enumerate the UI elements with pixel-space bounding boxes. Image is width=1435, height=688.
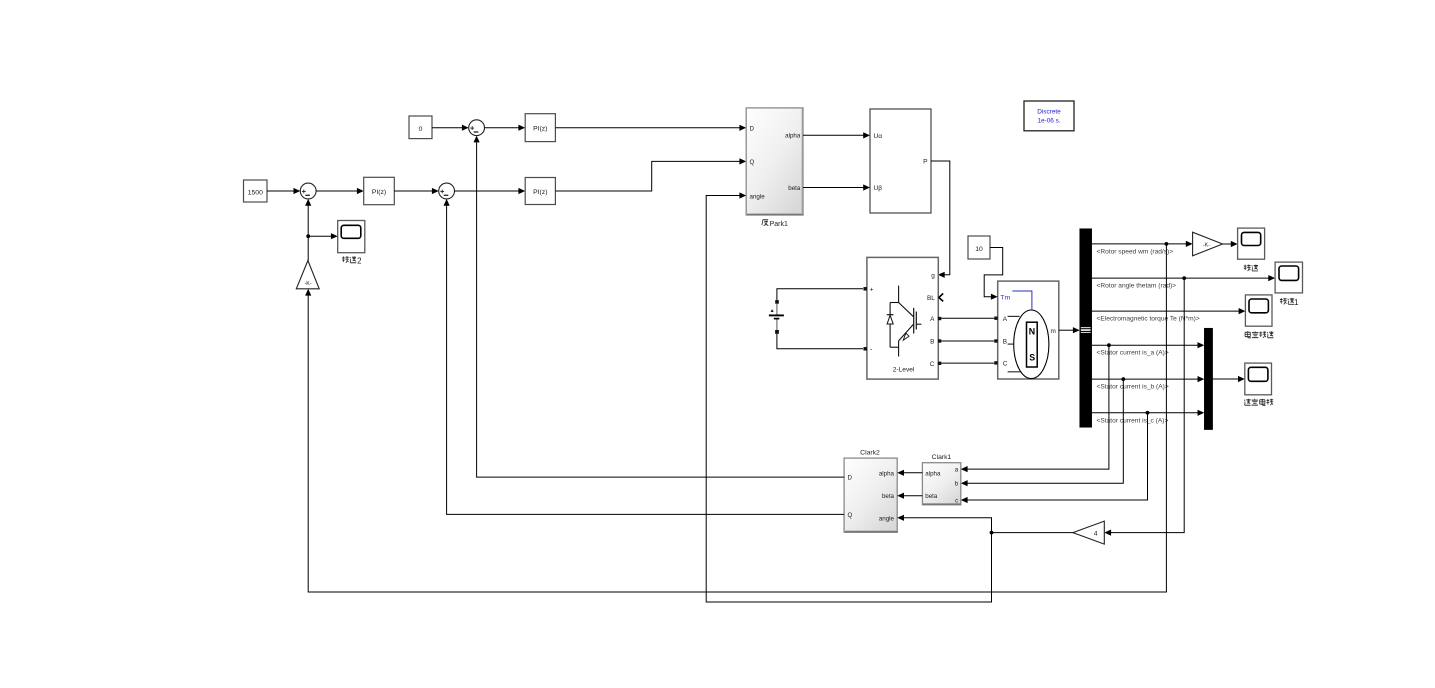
svg-text:Park1: Park1 [770, 221, 788, 228]
subsystem Clark2 [844, 458, 897, 532]
svg-text:<Stator current is_c (A)>: <Stator current is_c (A)> [1097, 417, 1169, 424]
gain -K- (speed feedback, pointing up) [296, 261, 319, 289]
wire angle feedback to gain 4 [1111, 278, 1184, 532]
svg-text:m: m [1050, 328, 1055, 335]
svg-text:Q: Q [848, 512, 853, 519]
wire PI(z) iq to Q input of 反Park1 [555, 161, 739, 191]
wire PI(z) speed to Sum2 [394, 190, 432, 192]
svg-text:1500: 1500 [248, 189, 263, 196]
svg-text:a: a [955, 467, 959, 474]
scope 转速 [1238, 228, 1265, 259]
svg-text:BL: BL [927, 295, 935, 302]
scope 定子电流 [1245, 363, 1272, 395]
wire Clark1 beta to Clark2 beta [904, 495, 923, 497]
bus signal marker [1081, 327, 1091, 333]
subsystem 反Park1 [746, 108, 803, 215]
wire is_c to Clark1 c [968, 413, 1148, 500]
svg-text:D: D [848, 475, 853, 482]
svg-text:alpha: alpha [785, 132, 801, 139]
svg-text:0: 0 [419, 126, 423, 133]
svg-text:S: S [1029, 352, 1035, 362]
subsystem Clark1 [922, 463, 960, 505]
svg-text:Tm: Tm [1000, 295, 1010, 302]
wire phase C [941, 362, 994, 364]
svg-text:4: 4 [1094, 531, 1098, 538]
svg-text:C: C [930, 361, 935, 368]
svg-text:c: c [955, 498, 958, 505]
wire PI(z) id to D input of 反Park1 [555, 127, 739, 129]
PMSM port squares [994, 317, 997, 320]
powergui block Discrete 1e-06 s. [1024, 101, 1074, 131]
wire gain 4 to Clark2 angle [904, 518, 1073, 533]
block Uab-to-P [870, 109, 931, 213]
svg-text:beta: beta [925, 493, 938, 500]
PMSM blue Tm line [1012, 291, 1032, 309]
label 转速 [1244, 264, 1251, 270]
wire speed feedback [308, 244, 1166, 592]
svg-text:C: C [1003, 361, 1008, 368]
wire Sum1 to PI(z) speed [316, 190, 357, 192]
svg-text:<Rotor speed wm (rad/s)>: <Rotor speed wm (rad/s)> [1097, 248, 1174, 255]
svg-text:<Stator current is_a (A)>: <Stator current is_a (A)> [1097, 350, 1169, 357]
wire stator current c [1092, 412, 1198, 414]
sum junction Sum2 [439, 183, 455, 199]
wire m to Bus Selector [1059, 329, 1074, 331]
svg-text:1: 1 [1294, 298, 1299, 307]
gain 4 (pole pairs, pointing left) [1073, 521, 1104, 544]
svg-text:alpha: alpha [879, 470, 895, 477]
constant block 10 [968, 236, 990, 259]
gain -K- (rpm conversion, pointing right) [1193, 232, 1223, 256]
svg-text:Uα: Uα [874, 133, 883, 140]
wire phase B [941, 340, 994, 342]
wire alpha to Ualpha [803, 134, 864, 136]
constant block 0 [409, 116, 432, 139]
wire 10 to Tm [984, 248, 1003, 297]
svg-text:PI(z): PI(z) [533, 189, 547, 196]
PMSM rotor ellipse [1014, 310, 1049, 379]
svg-text:b: b [955, 481, 959, 488]
svg-text:+: + [870, 287, 874, 294]
wire Sum3 to PI(z) id [485, 127, 519, 129]
wire stator current b [1092, 378, 1198, 380]
constant block 1500 [244, 180, 268, 202]
wire 1500 to Sum1 [267, 190, 295, 192]
PMSM winding stubs [1008, 315, 1020, 317]
wire Clark2 Q to Sum2 [447, 206, 844, 515]
svg-text:<Rotor angle thetam (rad)>: <Rotor angle thetam (rad)> [1097, 283, 1177, 290]
scope 电磁转矩 [1245, 295, 1272, 326]
svg-text:1e-06 s.: 1e-06 s. [1037, 117, 1060, 124]
Bus Selector bar [1080, 229, 1092, 428]
svg-text:2-Level: 2-Level [893, 366, 915, 373]
label 电磁转矩 [1245, 331, 1251, 338]
label 转速2 [342, 256, 349, 262]
PMSM magnet N-S [1027, 322, 1038, 367]
PMSM motor block [998, 281, 1059, 379]
scope 转速1 [1275, 262, 1302, 293]
scope 转速2 [338, 221, 365, 253]
PI controller PI(z) iq [525, 178, 555, 205]
svg-text:beta: beta [788, 185, 801, 192]
wire gain -K- up to Sum1 [307, 205, 309, 261]
svg-text:2: 2 [357, 256, 362, 265]
wire torque output [1092, 310, 1239, 312]
wire phase A [941, 317, 994, 319]
svg-text:A: A [930, 316, 935, 323]
wire Clark2 D to Sum3 [477, 142, 844, 477]
PMSM Tm input arrow [991, 294, 998, 300]
svg-text:D: D [750, 125, 755, 132]
svg-text:Discrete: Discrete [1037, 108, 1061, 115]
svg-text:PI(z): PI(z) [533, 126, 547, 133]
sum junction Sum3 [469, 120, 485, 136]
svg-text:g: g [931, 273, 935, 280]
svg-text:A: A [1003, 316, 1008, 323]
sum junction Sum1 [300, 183, 316, 199]
wire battery minus to 2-Level - [777, 334, 863, 349]
svg-text:B: B [930, 339, 934, 346]
2-Level IGBT-diode icon [898, 286, 900, 303]
svg-text:beta: beta [882, 493, 895, 500]
wire rotor speed output [1092, 243, 1186, 245]
svg-text:Q: Q [750, 159, 755, 166]
svg-text:Clark2: Clark2 [860, 449, 880, 456]
inverter block 2-Level [867, 257, 938, 379]
label 定子电流 [1244, 399, 1250, 405]
svg-text:-K-: -K- [305, 281, 312, 287]
PI controller PI(z) id [525, 114, 555, 142]
label 反Park1 [762, 220, 769, 226]
wire Sum2 to PI(z) iq [455, 190, 519, 192]
svg-text:PI(z): PI(z) [372, 189, 386, 196]
svg-text:angle: angle [750, 193, 766, 200]
svg-text:<Stator current is_b (A)>: <Stator current is_b (A)> [1097, 384, 1169, 391]
svg-text:B: B [1003, 339, 1007, 346]
label 转速1 [1280, 298, 1287, 304]
svg-text:Uβ: Uβ [874, 185, 883, 192]
wire Clark1 alpha to Clark2 alpha [904, 472, 923, 474]
svg-text:-K-: -K- [1203, 242, 1210, 248]
wire beta to Ubeta [803, 187, 864, 189]
wire battery plus to 2-Level + [777, 289, 863, 301]
svg-text:angle: angle [879, 516, 895, 523]
wire rotor angle output [1092, 277, 1269, 279]
Mux bar [1204, 328, 1212, 429]
wire Mux to scope 定子电流 [1213, 378, 1239, 380]
svg-text:N: N [1029, 327, 1035, 337]
svg-text:Clark1: Clark1 [932, 454, 952, 461]
wire stator current a [1092, 344, 1198, 346]
DC voltage source battery [776, 304, 778, 315]
PI controller PI(z) speed [364, 177, 395, 204]
wire P to gate g of 2-Level [931, 161, 950, 275]
BL unconnected input chevron [939, 293, 943, 301]
svg-text:alpha: alpha [925, 470, 941, 477]
wire gain to scope 转速 [1223, 243, 1231, 245]
svg-text:P: P [923, 159, 928, 166]
wire junction to scope 转速2 [308, 235, 331, 237]
wire is_b to Clark1 b [968, 379, 1124, 483]
svg-text:10: 10 [975, 246, 983, 253]
wire is_a to Clark1 a [968, 345, 1109, 469]
wire 0 to Sum3 [432, 127, 462, 129]
wire gain 4 to 反Park1 angle [706, 196, 991, 603]
2-Level port squares [863, 287, 867, 291]
